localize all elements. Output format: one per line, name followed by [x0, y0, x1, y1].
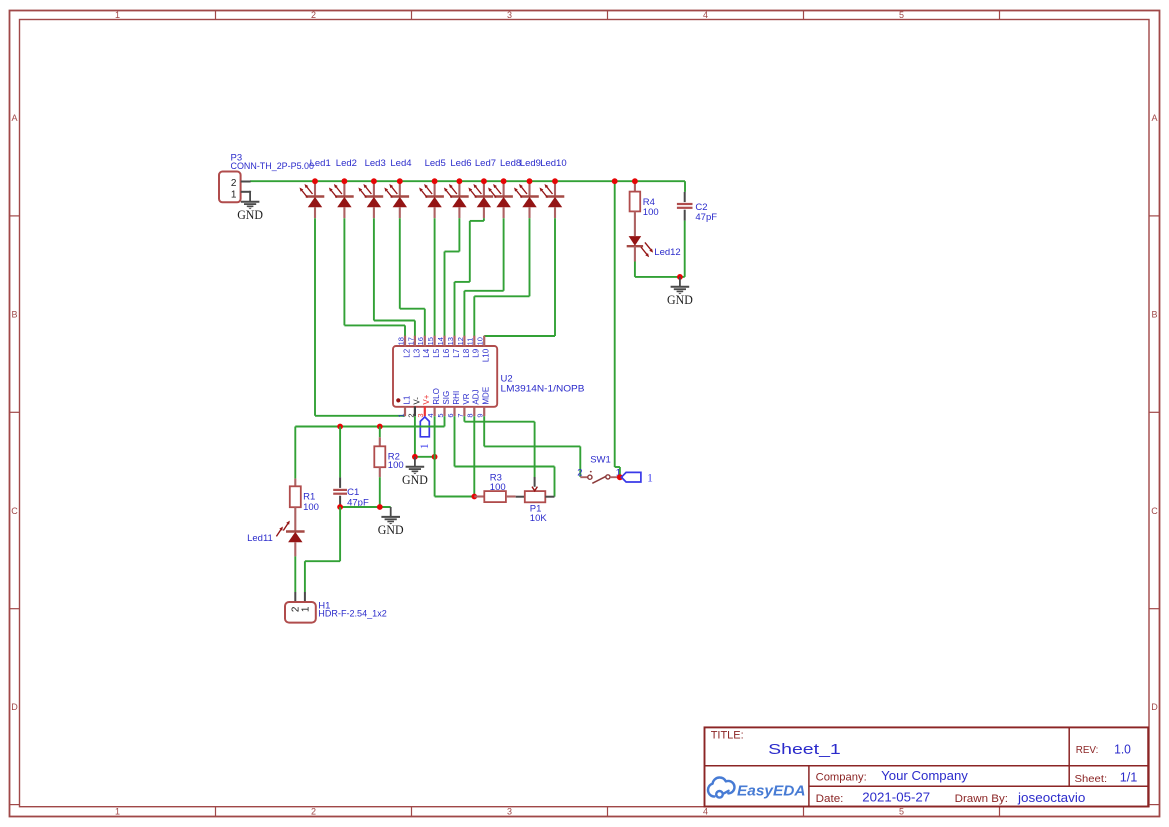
svg-text:Led12: Led12: [654, 247, 680, 258]
svg-text:100: 100: [303, 502, 319, 513]
svg-text:SW1: SW1: [590, 455, 611, 466]
junction on rail at Led5: [432, 178, 438, 184]
svg-text:Led8: Led8: [500, 158, 521, 169]
wire SIG rail to R2: [379, 427, 381, 438]
svg-text:3: 3: [507, 807, 512, 817]
U2 pin 2 (V-): [406, 397, 421, 418]
svg-text:Led4: Led4: [390, 158, 411, 169]
ground GND at U2 pin 2: [402, 457, 428, 487]
wire U2 pin 6 to P1 right: [455, 416, 555, 497]
svg-text:2: 2: [311, 807, 316, 817]
wire SIG rail to R1: [294, 427, 296, 479]
svg-text:13: 13: [446, 337, 455, 345]
wire top rail to C2: [684, 181, 686, 192]
svg-text:C: C: [1151, 506, 1158, 516]
svg-text:SIG: SIG: [442, 391, 451, 405]
wire pin2-pin4 ground link: [415, 456, 435, 458]
EasyEDA logo: [708, 778, 806, 800]
svg-text:Led10: Led10: [540, 158, 566, 169]
svg-text:D: D: [11, 702, 18, 712]
LED Led11: [247, 507, 305, 556]
U2 pin 6 (RHI): [446, 391, 461, 418]
svg-text:B: B: [11, 309, 17, 319]
svg-text:L9: L9: [472, 348, 481, 357]
resistor R1: [290, 479, 319, 513]
ground GND at R2/C1 bottom: [378, 507, 404, 537]
P3 pin 2 lead: [241, 181, 251, 183]
U2 pin 9 (MDE): [476, 387, 491, 418]
junction at SW1 pin 1: [617, 474, 623, 480]
svg-text:17: 17: [406, 337, 415, 345]
svg-text:100: 100: [490, 482, 506, 493]
junction on rail at Led10: [552, 178, 558, 184]
svg-text:100: 100: [388, 460, 404, 471]
svg-text:100: 100: [643, 207, 659, 218]
U2 pin 18 (L2): [396, 336, 411, 358]
U2 pin 15 (L5): [426, 336, 441, 358]
net flag 1 at U2 pin 3: [419, 417, 431, 449]
svg-text:MDE: MDE: [482, 387, 491, 405]
svg-text:CONN-TH_2P-P5.00: CONN-TH_2P-P5.00: [231, 161, 315, 172]
wire Led10 to U2 pin 10: [484, 218, 555, 336]
junction on rail at Led2: [342, 178, 348, 184]
U2 pin 1 (L1): [396, 395, 411, 417]
wire Led5 to U2 pin 15: [434, 218, 436, 336]
LED Led4: [384, 158, 411, 218]
svg-text:LM3914N-1/NOPB: LM3914N-1/NOPB: [501, 383, 585, 394]
U2 pin 14 (L6): [436, 336, 451, 358]
svg-text:Date:: Date:: [816, 793, 844, 805]
svg-text:Sheet_1: Sheet_1: [768, 741, 841, 758]
svg-text:3: 3: [507, 10, 512, 20]
connector H1: [285, 592, 387, 623]
svg-text:A: A: [1151, 113, 1157, 123]
svg-text:10K: 10K: [530, 513, 548, 524]
junction on rail at Led4: [397, 178, 403, 184]
svg-text:11: 11: [466, 338, 475, 346]
svg-text:47pF: 47pF: [695, 212, 717, 223]
LED Led10: [540, 158, 567, 218]
LED Led1: [300, 158, 331, 218]
U2 pin 16 (L4): [416, 336, 431, 358]
wire U2 pin 2 to ground junction: [414, 416, 416, 457]
svg-text:Sheet:: Sheet:: [1075, 773, 1108, 785]
svg-text:1: 1: [419, 443, 431, 449]
wire Led6 to U2 pin 14: [445, 218, 460, 336]
LED Led3: [358, 158, 385, 218]
U2 pin 3 (V+): [416, 394, 431, 417]
wire U2 pin 8 down to R3 node: [473, 416, 475, 496]
U2 pin 12 (L8): [456, 336, 471, 358]
svg-text:D: D: [1151, 702, 1158, 712]
svg-text:Company:: Company:: [816, 772, 867, 784]
svg-text:A: A: [11, 113, 17, 123]
svg-text:L1: L1: [402, 395, 411, 404]
resistor R4: [630, 181, 659, 218]
svg-text:1.0: 1.0: [1114, 741, 1131, 756]
svg-text:2: 2: [311, 10, 316, 20]
junction C1 bottom: [337, 504, 343, 510]
wire U2 pin 4 down to R3 node: [435, 416, 475, 496]
LED Led6: [444, 158, 472, 218]
svg-text:1: 1: [396, 413, 405, 417]
svg-text:L4: L4: [422, 348, 431, 357]
junction SIG rail at C1: [337, 424, 343, 430]
svg-text:HDR-F-2.54_1x2: HDR-F-2.54_1x2: [318, 609, 387, 620]
svg-text:L3: L3: [412, 348, 421, 357]
title block: [705, 727, 1149, 806]
svg-text:Led11: Led11: [247, 533, 273, 544]
svg-text:joseoctavio: joseoctavio: [1017, 790, 1085, 805]
svg-text:V+: V+: [422, 394, 431, 404]
ground GND at Led12/C2: [667, 277, 693, 307]
wire Led9 to U2 pin 11: [474, 218, 529, 336]
svg-text:Led3: Led3: [365, 158, 386, 169]
junction at ground link left: [412, 454, 418, 460]
wire Led1 to U2 pin 1: [315, 218, 405, 416]
wire Led12 to ground run: [635, 262, 685, 277]
capacitor C2: [677, 192, 717, 223]
net flag 1 at SW1: [621, 472, 653, 484]
svg-text:Led1: Led1: [310, 158, 331, 169]
junction on rail at Led6: [457, 178, 463, 184]
P3 pin 1 lead: [241, 191, 250, 192]
junction SIG rail at R2: [377, 424, 383, 430]
wire R2 bottom to C1 bottom and GND: [340, 477, 391, 507]
resistor R3: [474, 472, 515, 502]
U2 pin 4 (RLO): [426, 388, 441, 417]
switch SW1: [577, 455, 621, 484]
LED Led7: [468, 158, 496, 218]
svg-text:L10: L10: [482, 348, 491, 362]
svg-text:GND: GND: [402, 473, 428, 487]
op-amp-driver IC U2 LM3914N-1/NOPB body: [393, 346, 585, 407]
U2 pin 5 (SIG): [436, 391, 451, 418]
wire SIG rail to C1: [339, 427, 341, 478]
svg-text:V-: V-: [412, 397, 421, 405]
svg-text:RLO: RLO: [432, 388, 441, 404]
svg-text:1: 1: [115, 807, 120, 817]
svg-text:Drawn By:: Drawn By:: [955, 793, 1008, 805]
junction at R3 left: [471, 494, 477, 500]
junction at ground link right: [432, 454, 438, 460]
potentiometer P1: [516, 477, 555, 524]
title block texts: [711, 730, 1138, 805]
junction on rail at Led3: [371, 178, 377, 184]
LED Led8: [488, 158, 521, 218]
wire C1 bottom to H1 pin 1: [305, 507, 340, 592]
svg-text:ADJ: ADJ: [472, 389, 481, 404]
svg-text:REV:: REV:: [1076, 744, 1099, 756]
wire top rail to SW1 net flag: [615, 181, 620, 477]
svg-text:2: 2: [231, 178, 237, 189]
svg-text:Led5: Led5: [425, 158, 446, 169]
junction on rail at Led8: [501, 178, 507, 184]
svg-text:14: 14: [436, 337, 445, 345]
svg-text:5: 5: [899, 807, 904, 817]
svg-text:VR: VR: [462, 393, 471, 404]
svg-text:GND: GND: [667, 293, 693, 307]
wire U2 pin 9 to SW1 pin 2: [484, 416, 580, 477]
U2 pin 11 (L9): [466, 336, 481, 358]
LED Led2: [329, 158, 357, 218]
U2 pin 10 (L10): [476, 336, 491, 362]
svg-text:Led2: Led2: [336, 158, 357, 169]
U2 pin 13 (L7): [446, 336, 461, 358]
LED Led12: [627, 211, 681, 261]
svg-text:Led6: Led6: [450, 158, 471, 169]
svg-text:EasyEDA: EasyEDA: [737, 783, 806, 800]
frame row letters: [11, 113, 1158, 712]
svg-text:4: 4: [703, 807, 708, 817]
svg-text:RHI: RHI: [452, 391, 461, 405]
junction on rail at Led1: [312, 178, 318, 184]
svg-text:L8: L8: [462, 348, 471, 357]
svg-text:12: 12: [456, 337, 465, 345]
wire U2 pin 7 to P1 wiper: [464, 416, 534, 477]
svg-text:18: 18: [396, 337, 405, 345]
svg-text:Led9: Led9: [520, 158, 541, 169]
junction top rail at SW1 feed: [612, 178, 618, 184]
svg-text:B: B: [1151, 309, 1157, 319]
svg-text:2021-05-27: 2021-05-27: [862, 790, 930, 805]
junction on rail at Led9: [527, 178, 533, 184]
svg-text:Led7: Led7: [475, 158, 496, 169]
wire Led8 to U2 pin 12: [464, 218, 503, 336]
svg-text:5: 5: [899, 10, 904, 20]
svg-text:TITLE:: TITLE:: [711, 730, 744, 742]
connector P3: [219, 153, 314, 203]
svg-text:L7: L7: [452, 348, 461, 357]
U2 pin 7 (VR): [456, 393, 471, 417]
svg-text:C: C: [11, 506, 18, 516]
LED Led5: [419, 158, 446, 218]
svg-text:Your Company: Your Company: [881, 768, 968, 783]
svg-text:4: 4: [703, 10, 708, 20]
U2 pin 17 (L3): [406, 336, 421, 358]
svg-text:GND: GND: [237, 208, 263, 222]
wire Led7 to U2 pin 13: [455, 218, 484, 336]
svg-text:1: 1: [231, 190, 237, 201]
U2 pin 8 (ADJ): [466, 389, 481, 417]
wire Led3 to U2 pin 17: [374, 218, 415, 336]
wire Led2 to U2 pin 18: [344, 218, 405, 336]
svg-text:C1: C1: [347, 487, 359, 498]
svg-text:10: 10: [476, 337, 485, 345]
junction at Led12 ground: [677, 274, 683, 280]
ground GND at P3 pin 1: [237, 192, 263, 222]
junction R2 bottom: [377, 504, 383, 510]
svg-text:1: 1: [647, 472, 653, 484]
svg-text:L6: L6: [442, 348, 451, 357]
wire Led11 to H1 pin 2: [294, 556, 296, 592]
junction on rail at Led7: [481, 178, 487, 184]
wire C2 to ground run: [684, 221, 686, 277]
svg-text:L2: L2: [402, 348, 411, 357]
frame column numbers: [115, 10, 904, 817]
svg-text:1/1: 1/1: [1120, 769, 1138, 784]
resistor R2: [374, 437, 403, 477]
LED Led9: [514, 158, 541, 218]
junction top rail at R4: [632, 178, 638, 184]
svg-text:2: 2: [577, 468, 582, 479]
wire V+ top rail: [250, 180, 685, 182]
wire Led4 to U2 pin 16: [400, 218, 425, 336]
svg-text:15: 15: [426, 337, 435, 345]
svg-text:16: 16: [416, 337, 425, 345]
svg-text:1: 1: [300, 606, 311, 612]
capacitor C1: [333, 477, 369, 508]
wire SIG rail (R1/C1/R2 to U2 pin 5): [295, 416, 444, 426]
svg-text:1: 1: [115, 10, 120, 20]
svg-text:GND: GND: [378, 523, 404, 537]
svg-text:L5: L5: [432, 348, 441, 357]
